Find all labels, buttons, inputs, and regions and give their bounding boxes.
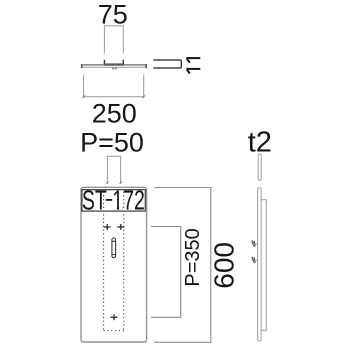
title box [82, 190, 145, 211]
side view hook upper link [254, 243, 257, 245]
screw hole cross left [104, 224, 111, 230]
tab under plate left cell [112, 68, 114, 70]
tick right corner 250 [143, 95, 146, 98]
svg-text:75: 75 [98, 0, 128, 30]
side view channel [262, 200, 267, 331]
plate top line (top view) [81, 64, 147, 66]
screw hole cross right [117, 224, 124, 230]
slot line bottom [112, 254, 116, 256]
slot line top [112, 240, 116, 242]
dim bracket P=350 [151, 227, 181, 318]
dim text 11 (rotated, drawn as paths) [186, 58, 200, 73]
boss top line (top view) [104, 63, 124, 65]
recess dotted right line [123, 192, 125, 331]
side view hook upper [252, 241, 255, 247]
svg-text:P=50: P=50 [80, 128, 144, 158]
svg-text:P=350: P=350 [182, 228, 204, 286]
screw hole cross bottom [111, 314, 118, 320]
recess dotted bottom line [104, 330, 124, 332]
tick right end P=50 [120, 182, 122, 184]
side view plate strip [258, 188, 262, 341]
slot [112, 238, 116, 258]
serif white-out right of 1 [119, 207, 122, 210]
plate right end cap [145, 64, 147, 68]
boss edge stubs (top view) [104, 60, 123, 64]
side view hook lower [252, 257, 255, 263]
tick left corner 250 [82, 95, 85, 98]
tick left end P=50 [106, 182, 108, 184]
recess dotted left line [103, 192, 105, 331]
dim bracket 250 [84, 75, 144, 97]
side view top strip [258, 154, 261, 180]
svg-text:250: 250 [92, 99, 137, 129]
side view hook upper tip [254, 241, 256, 245]
svg-text:600: 600 [209, 242, 240, 289]
svg-text:ST-172: ST-172 [82, 184, 145, 215]
side view hook lower tip [254, 257, 256, 261]
plate left end cap [81, 64, 83, 68]
dim lines 11 [153, 60, 181, 68]
dim bracket P=50 [107, 156, 120, 183]
dim bracket 75 [104, 26, 123, 54]
title hyphen white-out [106, 201, 112, 204]
serif white-out left of 1 [114, 207, 117, 210]
tab under plate right cell [115, 68, 117, 70]
side view hook lower link [254, 259, 257, 261]
dim bracket 600 [154, 188, 211, 343]
title hyphen redrawn [106, 199, 112, 201]
front view outer rect [81, 187, 147, 342]
plate bottom line (top view) [81, 66, 147, 68]
